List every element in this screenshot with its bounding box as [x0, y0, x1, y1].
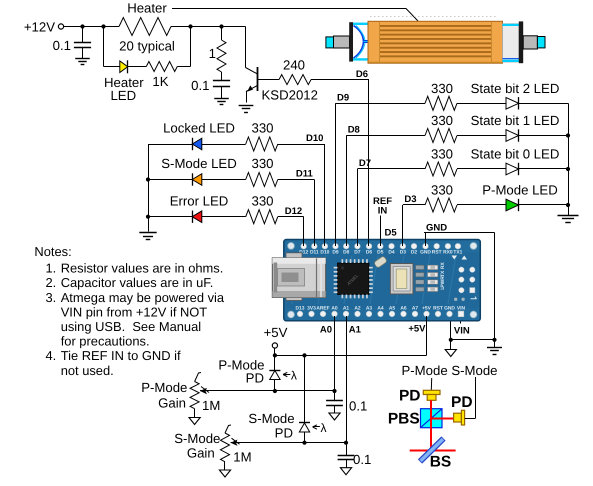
svg-text:1M: 1M [233, 450, 251, 465]
svg-text:Atmega may be powered via: Atmega may be powered via [61, 290, 225, 305]
svg-text:D9: D9 [332, 250, 339, 256]
svg-text:330: 330 [251, 156, 273, 171]
svg-text:4.: 4. [46, 348, 57, 363]
svg-text:A1: A1 [343, 305, 350, 311]
svg-text:PD: PD [275, 426, 293, 441]
svg-text:Error LED: Error LED [170, 193, 229, 208]
svg-text:330: 330 [251, 193, 273, 208]
svg-text:RX0: RX0 [443, 250, 453, 256]
svg-text:RST: RST [432, 250, 442, 256]
svg-text:BS: BS [430, 453, 452, 470]
svg-text:IN: IN [378, 206, 388, 217]
svg-text:0.1: 0.1 [349, 399, 367, 414]
svg-text:State bit 0 LED: State bit 0 LED [471, 147, 560, 162]
svg-text:330: 330 [431, 113, 453, 128]
svg-text:D9: D9 [337, 93, 349, 104]
svg-text:1.: 1. [46, 260, 57, 275]
svg-text:+12V: +12V [24, 20, 55, 35]
svg-text:D5: D5 [377, 250, 384, 256]
svg-text:330: 330 [251, 121, 273, 136]
svg-text:TX1: TX1 [453, 250, 462, 256]
svg-text:D5: D5 [385, 228, 398, 239]
svg-text:D12: D12 [285, 206, 302, 217]
svg-text:Tie REF IN to GND if: Tie REF IN to GND if [61, 348, 181, 363]
svg-text:PWR: PWR [440, 276, 446, 288]
svg-text:D10: D10 [306, 133, 323, 144]
svg-text:+5V: +5V [264, 325, 288, 340]
svg-text:P-Mode: P-Mode [141, 380, 187, 395]
svg-text:240: 240 [283, 58, 305, 73]
svg-text:S-Mode LED: S-Mode LED [161, 156, 237, 171]
svg-text:D11: D11 [310, 250, 319, 256]
svg-text:GND: GND [444, 305, 455, 311]
svg-text:AREF: AREF [316, 305, 329, 311]
svg-text:1M: 1M [202, 398, 220, 413]
svg-text:VIN: VIN [454, 326, 470, 337]
svg-text:S-Mode: S-Mode [248, 411, 294, 426]
svg-text:330: 330 [431, 183, 453, 198]
svg-text:λ: λ [291, 369, 297, 383]
svg-text:Locked LED: Locked LED [163, 121, 235, 136]
svg-text:A1: A1 [349, 325, 362, 336]
svg-text:Gain: Gain [158, 395, 186, 410]
svg-text:VIN pin from +12V if NOT: VIN pin from +12V if NOT [61, 304, 208, 319]
svg-text:3V3: 3V3 [307, 305, 316, 311]
svg-text:D3: D3 [400, 250, 407, 256]
svg-text:RST: RST [433, 305, 443, 311]
svg-text:20 typical: 20 typical [119, 39, 175, 54]
svg-text:A2: A2 [354, 305, 361, 311]
svg-text:D11: D11 [296, 169, 314, 180]
svg-text:PD: PD [451, 394, 473, 411]
svg-text:D3: D3 [404, 194, 416, 205]
svg-text:D8: D8 [348, 125, 360, 136]
svg-text:S-Mode: S-Mode [174, 431, 220, 446]
svg-text:A6: A6 [400, 305, 407, 311]
svg-text:State bit 1 LED: State bit 1 LED [471, 113, 560, 128]
svg-text:RX: RX [440, 262, 446, 270]
svg-text:λ: λ [321, 421, 327, 435]
svg-text:D7: D7 [354, 250, 361, 256]
svg-text:Capacitor values are in uF.: Capacitor values are in uF. [61, 275, 214, 290]
svg-text:L: L [440, 287, 446, 290]
svg-text:D13: D13 [296, 305, 305, 311]
svg-text:330: 330 [431, 81, 453, 96]
svg-text:Notes:: Notes: [34, 244, 71, 259]
svg-text:A4: A4 [377, 305, 384, 311]
svg-text:PBS: PBS [388, 411, 420, 428]
svg-text:P-Mode LED: P-Mode LED [482, 183, 558, 198]
svg-text:D8: D8 [343, 250, 350, 256]
svg-text:LED: LED [110, 88, 136, 103]
svg-text:1: 1 [209, 46, 216, 61]
svg-text:State bit 2 LED: State bit 2 LED [471, 81, 560, 96]
svg-text:+5V: +5V [408, 324, 426, 335]
svg-text:A5: A5 [389, 305, 396, 311]
svg-text:+5V: +5V [422, 305, 432, 311]
svg-text:GND: GND [420, 250, 431, 256]
svg-text:PD: PD [399, 388, 421, 405]
svg-text:D6: D6 [356, 69, 368, 80]
svg-text:D4: D4 [388, 250, 395, 256]
svg-text:D10: D10 [320, 250, 329, 256]
svg-text:VIN: VIN [457, 305, 466, 311]
svg-text:330: 330 [431, 147, 453, 162]
svg-text:Resistor values are in ohms.: Resistor values are in ohms. [61, 260, 224, 275]
svg-text:2.: 2. [46, 275, 57, 290]
svg-text:A0: A0 [320, 325, 332, 336]
svg-text:0.1: 0.1 [191, 78, 209, 93]
svg-text:A3: A3 [366, 305, 373, 311]
svg-text:using USB. See Manual: using USB. See Manual [61, 319, 201, 334]
svg-text:0.1: 0.1 [353, 452, 371, 467]
svg-text:Gain: Gain [187, 446, 215, 461]
svg-text:D2: D2 [411, 250, 418, 256]
svg-text:0.1: 0.1 [53, 38, 71, 53]
svg-text:A0: A0 [331, 305, 338, 311]
svg-text:A7: A7 [412, 305, 419, 311]
svg-text:3.: 3. [46, 290, 57, 305]
svg-text:1K: 1K [152, 74, 168, 89]
svg-text:P-Mode S-Mode: P-Mode S-Mode [401, 363, 497, 378]
svg-text:D7: D7 [359, 158, 371, 169]
svg-text:GND: GND [426, 223, 447, 234]
svg-text:KSD2012: KSD2012 [262, 88, 318, 103]
svg-text:TX: TX [440, 270, 446, 277]
svg-text:not used.: not used. [61, 363, 114, 378]
svg-text:Heater: Heater [127, 1, 167, 16]
svg-text:for precautions.: for precautions. [61, 334, 150, 349]
svg-text:PD: PD [246, 371, 264, 386]
svg-text:D6: D6 [366, 250, 373, 256]
